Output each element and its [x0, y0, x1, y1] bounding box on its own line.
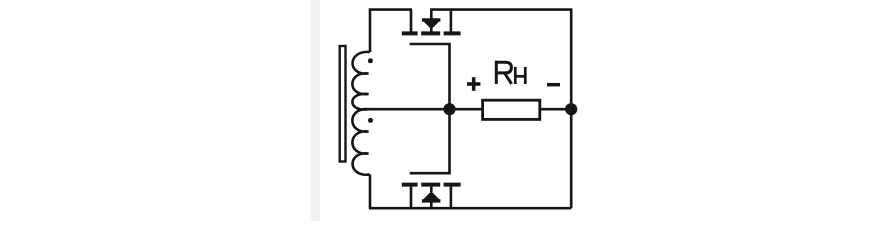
Q2 right pin: [450, 186, 453, 208]
plus label: [467, 77, 480, 91]
Q1 drain-diode vertical: [430, 10, 433, 19]
winding W1 (upper): [352, 52, 370, 110]
Q2 left pin: [410, 186, 413, 208]
node B junction dot: [565, 103, 577, 115]
Q1 channel bar left: [402, 31, 418, 35]
Q1 gate line: [410, 44, 450, 109]
Q1 channel bar middle: [421, 31, 440, 35]
transformer core: [340, 46, 346, 162]
label H subscript of RH: [515, 67, 526, 84]
transistor Q1 (top MOSFET with body diode): [402, 10, 461, 110]
Q2 channel bar right: [444, 183, 461, 187]
minus label: [547, 83, 560, 87]
label R of RH: [495, 61, 512, 84]
Q1 channel bar right: [444, 31, 461, 35]
polarity dot W2: [368, 118, 373, 123]
winding W2 (lower): [352, 109, 370, 175]
Q2 channel bar left: [402, 183, 418, 187]
Q2 channel bar middle: [421, 183, 440, 187]
Q1 diode triangle: [424, 21, 438, 28]
wire: node A to resistor: [450, 108, 483, 111]
wire: transformer bottom lead: [369, 175, 372, 209]
Q1 diode stem: [430, 27, 433, 32]
wire: center tap to node A: [368, 108, 450, 111]
Q1 diode anode bar: [422, 18, 441, 21]
Q2 diode triangle: [424, 192, 438, 199]
faint scan band at left edge: [311, 0, 320, 221]
wire: right side rail: [570, 8, 573, 208]
wire: transformer top lead to top rail: [370, 10, 412, 52]
resistor RH body: [483, 100, 540, 119]
Q1 right pin: [450, 10, 453, 32]
node A junction dot: [443, 103, 455, 115]
wire: bottom rail: [369, 207, 571, 210]
transistor Q2 (bottom MOSFET with body diode): [402, 109, 461, 208]
polarity dot W1: [368, 58, 373, 63]
Q2 diode stem bottom: [430, 201, 433, 208]
wire: top rail right segment: [430, 8, 571, 11]
Q2 diode stem top: [430, 186, 433, 192]
Q2 diode cathode bar: [422, 199, 441, 202]
Q1 left pin: [410, 10, 413, 32]
Q2 gate line: [410, 109, 450, 173]
wire: resistor to node B: [540, 108, 571, 111]
